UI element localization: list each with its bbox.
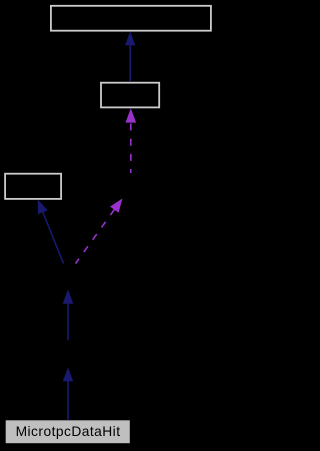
svg-text:MicrotpcDataHit: MicrotpcDataHit xyxy=(16,424,121,439)
